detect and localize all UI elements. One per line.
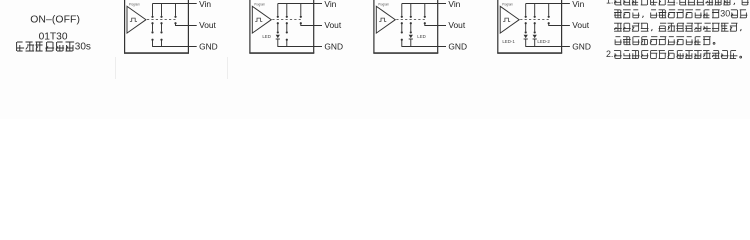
svg-text:Vin: Vin [199, 0, 211, 9]
contact S3 moving contact 1 middle [401, 22, 403, 33]
contact S2 fixed terminal 1 upper [277, 4, 279, 18]
LED diode on branch 2 of module 3 [409, 35, 413, 47]
dashed actuator line of switch S1 [147, 19, 176, 21]
contact S2 fixed terminal 3 upper [300, 4, 302, 18]
contact S3 moving contact 2 middle [410, 22, 412, 33]
note line 2 [614, 8, 747, 18]
svg-text:ON–(OFF): ON–(OFF) [30, 14, 80, 25]
svg-text:LED: LED [262, 34, 271, 39]
svg-text:GND: GND [572, 41, 591, 51]
note line 5 [606, 49, 742, 59]
dashed actuator line of switch S3 [396, 19, 425, 21]
LED diode on branch 2 of module 4 [533, 35, 537, 47]
contact S3 lower terminal 1 [401, 39, 403, 47]
contact S3 fixed terminal 3 upper [424, 4, 426, 18]
svg-text:LED-2: LED-2 [537, 39, 550, 44]
svg-text:Vout: Vout [448, 20, 465, 30]
contact S3 fixed terminal 2 upper [410, 4, 412, 18]
op-amp U3A pulse trigger [376, 6, 395, 33]
faint table column border remnant 1 [115, 57, 117, 79]
LED diode on branch 1 of module 2 [276, 35, 280, 47]
contact S2 fixed terminal 2 upper [286, 4, 288, 18]
contact S1 output terminal and wire Vout [174, 22, 196, 25]
svg-text:Program: Program [378, 2, 389, 6]
contact S1 moving contact 2 middle [160, 22, 162, 33]
contact S1 moving contact 1 middle [151, 22, 153, 33]
LED diode on branch 1 of module 4 [524, 35, 528, 47]
svg-text:GND: GND [448, 41, 467, 51]
wire GND rail [402, 46, 446, 48]
contact S4 output terminal and wire Vout [548, 22, 570, 25]
svg-text:01T30: 01T30 [39, 31, 68, 42]
contact S3 output terminal and wire Vout [424, 22, 446, 25]
contact S2 lower terminal 2 [286, 39, 288, 47]
contact S2 output terminal and wire Vout [300, 22, 322, 25]
module box U4 [498, 0, 562, 53]
faint table column border remnant 2 [227, 57, 229, 79]
contact S4 moving contact 1 middle [525, 22, 527, 33]
contact S4 fixed terminal 3 upper [548, 4, 550, 18]
wire GND rail [278, 46, 322, 48]
wire Vin rail [402, 3, 446, 5]
svg-text:GND: GND [199, 41, 218, 51]
svg-text:Program: Program [502, 2, 513, 6]
contact S4 fixed terminal 1 upper [525, 4, 527, 18]
svg-text:Vout: Vout [572, 20, 589, 30]
svg-text:Vin: Vin [324, 0, 336, 9]
contact S1 fixed terminal 1 upper [151, 4, 153, 18]
dashed actuator line of switch S2 [272, 19, 301, 21]
op-amp U4A pulse trigger [500, 6, 519, 33]
svg-text:Vout: Vout [199, 20, 216, 30]
svg-text:Program: Program [129, 2, 140, 6]
note line 3 [614, 23, 741, 31]
svg-text:Vin: Vin [572, 0, 584, 9]
svg-text:Vin: Vin [448, 0, 460, 9]
wire GND rail [153, 46, 197, 48]
module box U1 [125, 0, 189, 53]
svg-text:30s: 30s [75, 41, 91, 52]
svg-text:1.: 1. [606, 0, 613, 6]
svg-text:Program: Program [254, 2, 265, 6]
wire GND rail [526, 46, 570, 48]
module box U3 [374, 0, 438, 53]
svg-text:GND: GND [324, 41, 343, 51]
dashed actuator line of switch S4 [520, 19, 549, 21]
wire Vin rail [526, 3, 570, 5]
svg-text:LED-1: LED-1 [502, 39, 515, 44]
contact S3 fixed terminal 1 upper [401, 4, 403, 18]
svg-text:LED: LED [417, 34, 426, 39]
svg-text:Vout: Vout [324, 20, 341, 30]
contact S1 fixed terminal 2 upper [160, 4, 162, 18]
contact S1 fixed terminal 3 upper [174, 4, 176, 18]
svg-text:2.: 2. [606, 49, 613, 59]
op-amp U1A pulse trigger [127, 6, 146, 33]
module box U2 [250, 0, 314, 53]
contact S2 moving contact 1 middle [277, 22, 279, 33]
contact S4 moving contact 2 middle [534, 22, 536, 33]
contact S2 moving contact 2 middle [286, 22, 288, 33]
contact S1 lower terminal 1 [151, 39, 153, 47]
contact S4 fixed terminal 2 upper [534, 4, 536, 18]
wire Vin rail [278, 3, 322, 5]
contact S1 lower terminal 2 [160, 39, 162, 47]
svg-text:30: 30 [720, 8, 730, 18]
label function: normally-closed momentary delay 30s [17, 41, 91, 52]
wire Vin rail [153, 3, 197, 5]
note line 1 [606, 0, 749, 6]
op-amp U2A pulse trigger [252, 6, 271, 33]
svg-text:.: . [676, 0, 678, 6]
note line 4 [615, 37, 715, 45]
